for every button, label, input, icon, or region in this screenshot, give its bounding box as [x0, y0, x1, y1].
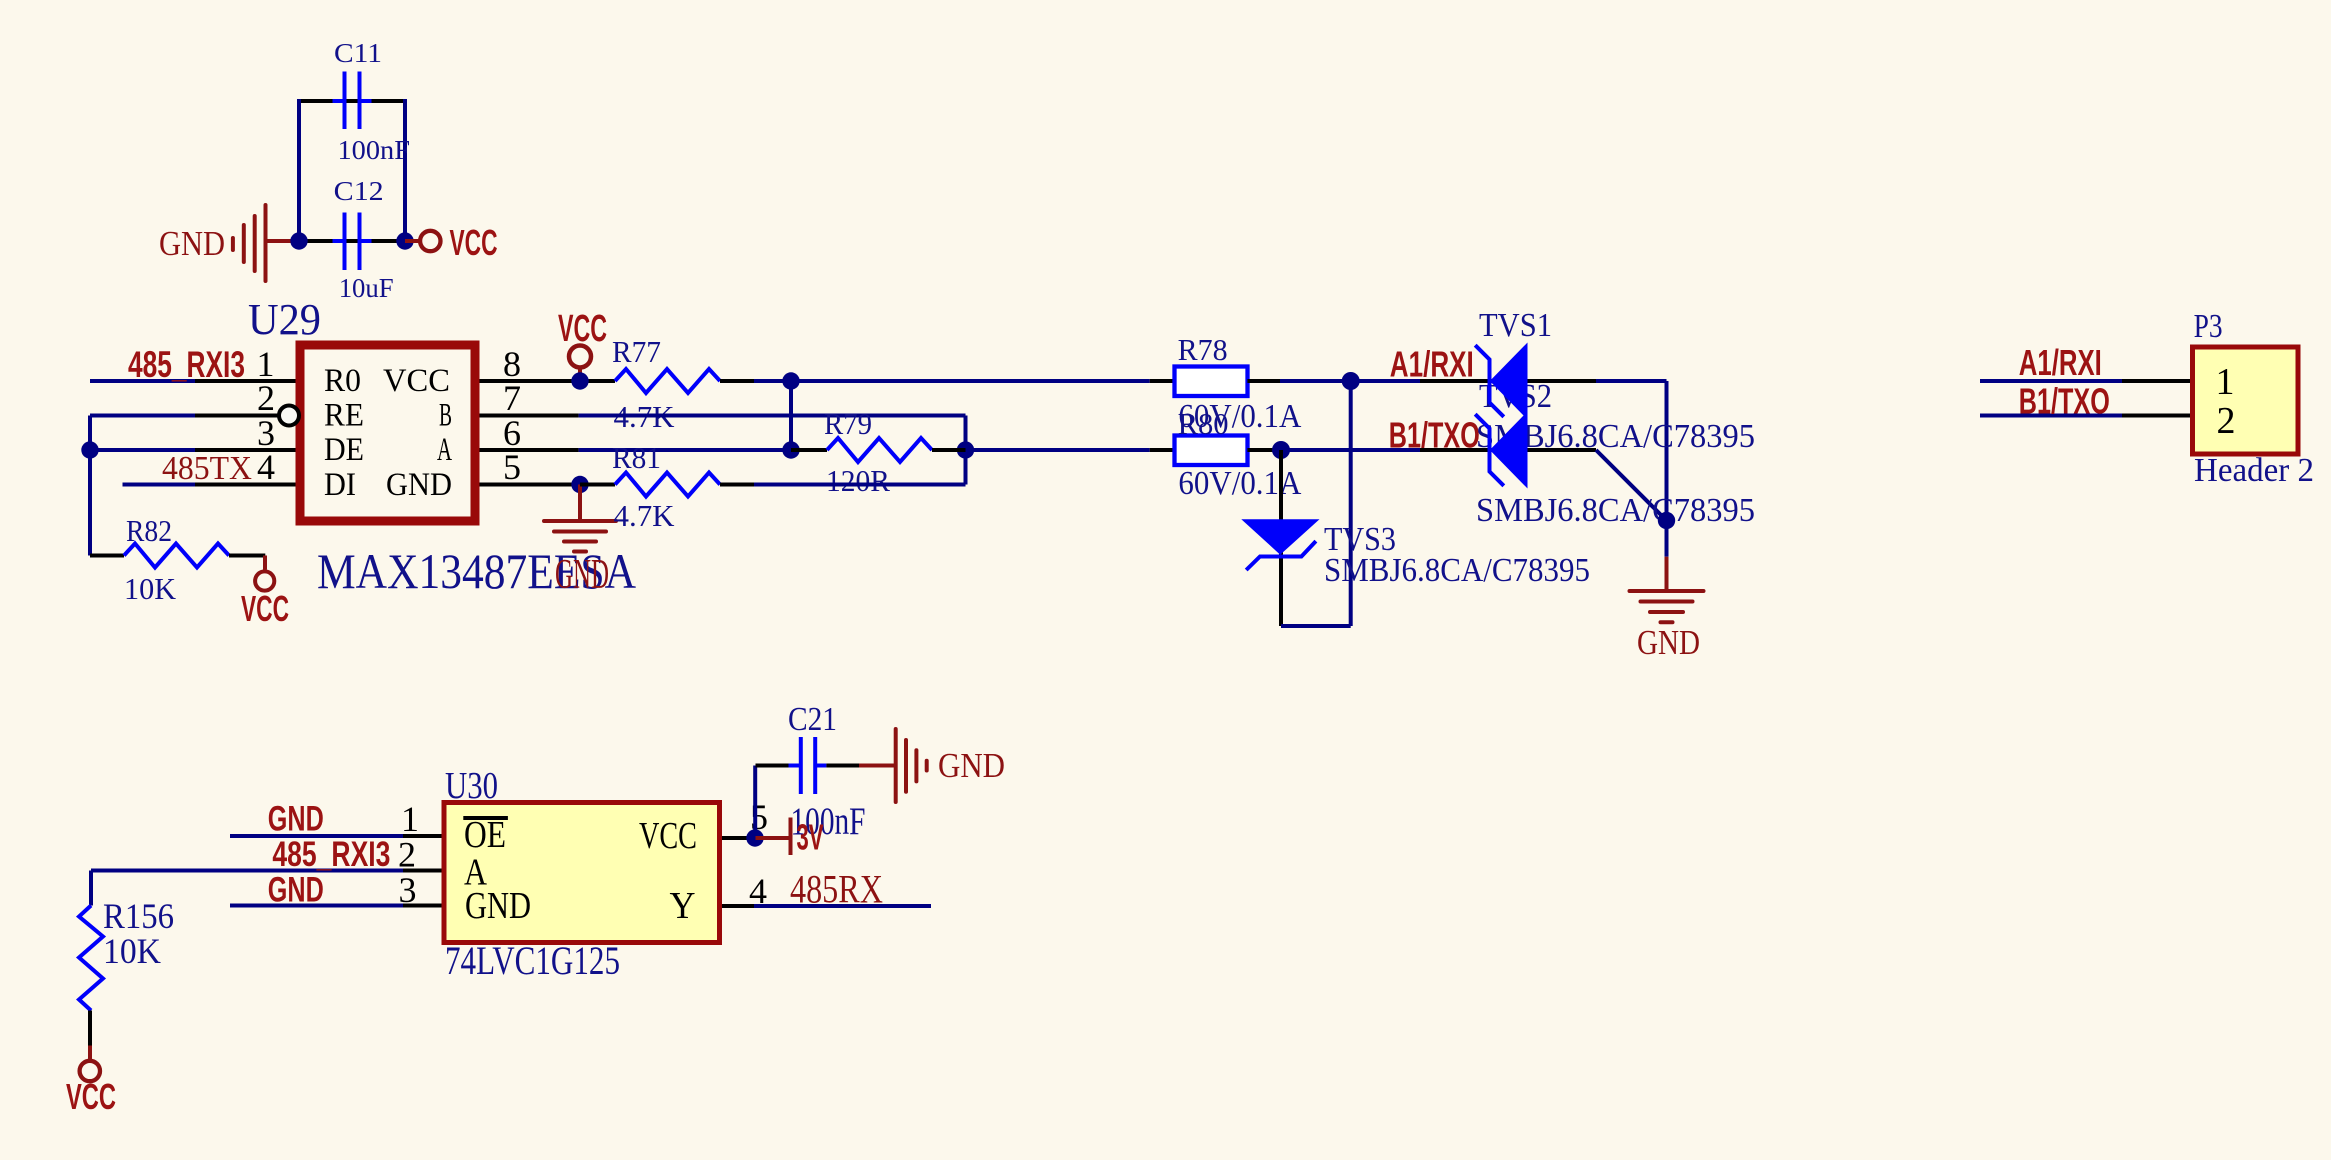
svg-text:2: 2 — [2217, 400, 2236, 442]
svg-text:A1/RXI: A1/RXI — [2019, 342, 2102, 383]
svg-text:1: 1 — [2216, 361, 2235, 403]
svg-text:VCC: VCC — [383, 363, 450, 399]
svg-text:B: B — [439, 398, 452, 434]
svg-text:P3: P3 — [2194, 308, 2223, 345]
svg-text:485RX: 485RX — [790, 867, 883, 912]
svg-text:485TX: 485TX — [162, 450, 252, 487]
svg-text:TVS1: TVS1 — [1479, 307, 1552, 344]
svg-text:120R: 120R — [826, 463, 890, 498]
svg-text:VCC: VCC — [241, 588, 289, 629]
svg-text:485_RXI3: 485_RXI3 — [272, 835, 390, 874]
svg-text:Y: Y — [670, 885, 696, 927]
svg-text:VCC: VCC — [639, 815, 697, 857]
svg-text:Header 2: Header 2 — [2194, 452, 2314, 489]
svg-text:100nF: 100nF — [338, 135, 411, 165]
svg-text:74LVC1G125: 74LVC1G125 — [445, 938, 620, 983]
svg-text:SMBJ6.8CA/C78395: SMBJ6.8CA/C78395 — [1476, 492, 1755, 529]
svg-text:5: 5 — [503, 447, 521, 487]
svg-text:R79: R79 — [824, 406, 872, 441]
svg-text:C21: C21 — [788, 701, 837, 738]
svg-text:3V: 3V — [797, 817, 824, 858]
svg-text:DI: DI — [324, 467, 356, 503]
svg-text:VCC: VCC — [450, 222, 498, 263]
svg-text:R82: R82 — [126, 513, 172, 548]
svg-text:C11: C11 — [334, 38, 382, 68]
svg-text:RE: RE — [324, 398, 364, 434]
svg-text:U29: U29 — [248, 295, 321, 344]
svg-text:R81: R81 — [612, 440, 661, 475]
svg-text:SMBJ6.8CA/C78395: SMBJ6.8CA/C78395 — [1324, 552, 1590, 589]
svg-text:1: 1 — [401, 799, 419, 839]
svg-text:4: 4 — [257, 447, 275, 487]
svg-text:GND: GND — [938, 746, 1005, 785]
svg-text:R156: R156 — [103, 896, 174, 936]
svg-text:A1/RXI: A1/RXI — [1390, 344, 1474, 385]
svg-text:10uF: 10uF — [339, 273, 394, 303]
svg-text:4.7K: 4.7K — [614, 498, 676, 533]
svg-text:10K: 10K — [124, 571, 177, 606]
svg-text:10K: 10K — [103, 931, 161, 971]
svg-text:4: 4 — [749, 871, 767, 911]
svg-text:GND: GND — [386, 467, 452, 503]
svg-text:VCC: VCC — [558, 308, 607, 350]
svg-text:485_RXI3: 485_RXI3 — [128, 344, 245, 385]
svg-text:U30: U30 — [445, 765, 498, 807]
svg-text:60V/0.1A: 60V/0.1A — [1178, 465, 1301, 502]
svg-text:VCC: VCC — [66, 1076, 116, 1117]
svg-text:3: 3 — [399, 870, 417, 910]
svg-text:DE: DE — [324, 432, 364, 468]
svg-text:GND: GND — [555, 552, 609, 598]
svg-text:GND: GND — [1637, 623, 1700, 662]
svg-text:C12: C12 — [334, 176, 384, 206]
svg-text:B1/TXO: B1/TXO — [1389, 415, 1480, 456]
svg-text:A: A — [437, 432, 452, 468]
svg-text:GND: GND — [268, 800, 324, 839]
svg-text:R77: R77 — [612, 334, 661, 369]
svg-text:GND: GND — [268, 871, 324, 910]
svg-text:GND: GND — [465, 885, 531, 927]
svg-text:B1/TXO: B1/TXO — [2019, 381, 2110, 422]
svg-text:R80: R80 — [1178, 406, 1229, 441]
svg-text:7: 7 — [503, 378, 521, 418]
svg-text:2: 2 — [257, 378, 275, 418]
svg-text:GND: GND — [159, 224, 225, 263]
svg-text:2: 2 — [398, 835, 416, 875]
svg-text:OE: OE — [464, 814, 506, 856]
svg-text:R78: R78 — [1178, 332, 1228, 367]
svg-text:R0: R0 — [324, 363, 361, 399]
